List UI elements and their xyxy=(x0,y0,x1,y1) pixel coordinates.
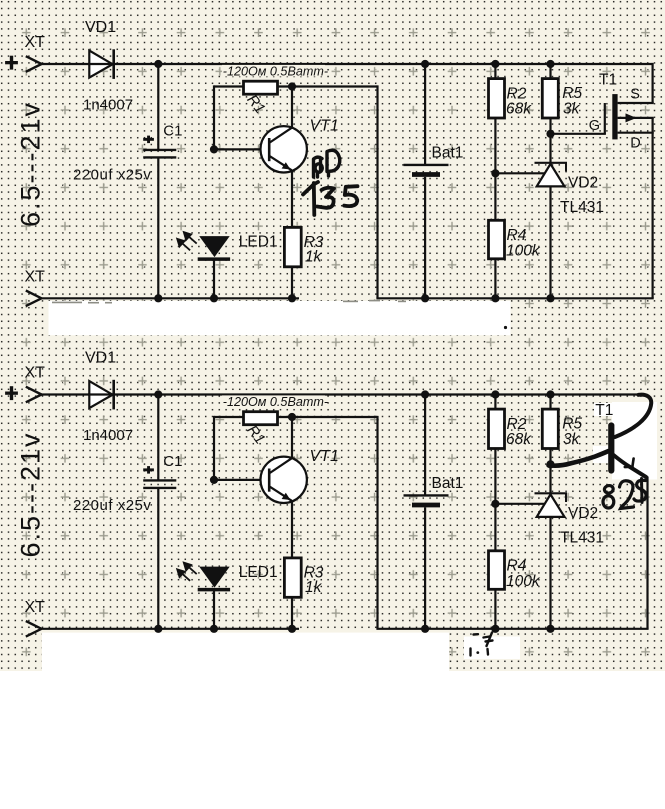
svg-text:XT: XT xyxy=(25,599,46,616)
resistor R2 (top circuit) xyxy=(494,64,496,79)
wire T1 body with arrow (top circuit) xyxy=(618,117,654,119)
connector XT pin chevron (bot circuit, - input) xyxy=(26,621,42,629)
svg-text:LED1: LED1 xyxy=(239,564,278,581)
svg-text:R5: R5 xyxy=(562,416,582,433)
wire R2 to R4 (top circuit) xyxy=(494,118,496,221)
svg-text:VD2: VD2 xyxy=(568,505,598,522)
hand-drawn T1 emitter arrowhead (bottom circuit) xyxy=(625,459,634,468)
svg-text:68k: 68k xyxy=(506,431,532,448)
svg-text:6.5---21v: 6.5---21v xyxy=(16,431,46,557)
tiny ink dot on white strip xyxy=(504,326,507,329)
wire base of VT1 (top circuit) xyxy=(214,148,269,150)
handwritten 135 mark near VT1 (top circuit) xyxy=(303,182,358,215)
label bg for 120Om 0.5Watt (bot circuit) xyxy=(222,395,325,407)
wire R4 bottom lead (top circuit) xyxy=(494,259,496,299)
svg-text:-120Ом 0.5Ватт-: -120Ом 0.5Ватт- xyxy=(223,65,328,79)
battery Bat1 (top circuit) xyxy=(424,64,426,165)
svg-text:R4: R4 xyxy=(507,558,527,575)
hand-drawn T1 emitter stroke (bottom circuit) xyxy=(614,455,647,477)
connector XT pin chevron (top circuit, - input) xyxy=(26,291,42,299)
svg-text:LED1: LED1 xyxy=(239,234,278,251)
hand-drawn T1 bar (bottom circuit) xyxy=(608,426,614,471)
wire R3 bottom lead (bot circuit) xyxy=(291,597,293,629)
svg-text:VD1: VD1 xyxy=(85,350,116,367)
connector XT pin chevron (top circuit, + input) xyxy=(26,56,42,64)
wire right vertical lower segment (top circuit) xyxy=(651,118,653,298)
diode VD1 (bot circuit) xyxy=(89,381,112,408)
wire R2 to R4 (bot circuit) xyxy=(494,449,496,552)
wire right vertical lower segment (bottom circuit) xyxy=(646,477,648,629)
svg-text:R5: R5 xyxy=(562,85,582,102)
svg-text:100k: 100k xyxy=(506,243,541,260)
label bg for 120Om 0.5Watt (top circuit) xyxy=(222,65,325,77)
junction dots bottom rail (top circuit) xyxy=(154,294,162,302)
LED1 light emission arrows (top circuit) xyxy=(177,232,197,250)
svg-text:-120Ом 0.5Ватт-: -120Ом 0.5Ватт- xyxy=(223,395,328,409)
hand-drawn T1 collector curve (bottom circuit) xyxy=(615,395,651,437)
MOSFET T1 channel bar (top circuit) xyxy=(612,94,617,139)
junction dots bottom rail (bot circuit) xyxy=(154,625,162,633)
svg-text:220uf x25v: 220uf x25v xyxy=(73,497,151,514)
small scribble marks bottom area xyxy=(471,633,493,656)
transistor VT1 (bot circuit) xyxy=(261,457,307,503)
svg-text:6.5---21v: 6.5---21v xyxy=(16,101,46,227)
svg-text:C1: C1 xyxy=(163,453,182,470)
junction dots top rail (bot circuit) xyxy=(154,390,162,398)
svg-text:XT: XT xyxy=(25,365,46,382)
svg-text:VD2: VD2 xyxy=(568,175,598,192)
svg-text:C1: C1 xyxy=(163,123,182,140)
svg-text:T1: T1 xyxy=(595,402,613,419)
svg-text:T1: T1 xyxy=(599,72,617,89)
svg-text:Bat1: Bat1 xyxy=(432,475,464,492)
wire emitter of VT1 to R3 (bot circuit) xyxy=(291,501,293,558)
svg-text:VD1: VD1 xyxy=(85,19,116,36)
wire bottom rail right (top circuit) xyxy=(376,297,653,299)
wire emitter of VT1 to R3 (top circuit) xyxy=(291,170,293,227)
transistor VT1 (top circuit) xyxy=(261,126,307,172)
handwritten PD mark near VT1 (top circuit) xyxy=(314,150,340,177)
battery Bat1 (bot circuit) xyxy=(424,395,426,496)
svg-text:Bat1: Bat1 xyxy=(432,145,464,162)
svg-text:1n4007: 1n4007 xyxy=(83,427,133,444)
svg-text:D: D xyxy=(630,135,640,151)
resistor R3 (bot circuit) xyxy=(284,558,301,597)
LED LED1 (top circuit) xyxy=(199,236,230,257)
resistor R4 (bot circuit) xyxy=(489,551,505,590)
wire top rail (bot circuit) xyxy=(41,393,643,395)
capacitor C1 (bot circuit) xyxy=(157,395,159,481)
svg-text:R4: R4 xyxy=(507,227,527,244)
junction dot divider R2/R4 (bot circuit) xyxy=(491,500,499,508)
white area below bottom circuit left xyxy=(42,633,449,672)
MOSFET T1 gate line (top circuit) xyxy=(604,103,606,134)
shunt regulator VD2 TL431 (bot circuit) xyxy=(537,494,565,517)
wire gate of T1 (top circuit) xyxy=(551,133,606,135)
wire R5 to VD2 (bot circuit) xyxy=(549,449,551,494)
svg-text:TL431: TL431 xyxy=(560,199,604,216)
wire right feed vertical (top circuit) xyxy=(376,85,378,298)
svg-text:1k: 1k xyxy=(305,248,323,265)
svg-text:1n4007: 1n4007 xyxy=(83,96,133,113)
connector XT pin chevron (bot circuit, + input) xyxy=(26,387,42,395)
svg-text:100k: 100k xyxy=(506,573,541,590)
plus polarity sign (top circuit input) xyxy=(5,61,18,64)
white patch behind hand-drawn T1 (bottom circuit) xyxy=(612,402,657,480)
wire drain of T1 (top circuit) xyxy=(618,132,654,134)
svg-text:68k: 68k xyxy=(506,101,532,118)
junction dot gate tap on R5 (top circuit) xyxy=(546,130,554,138)
junction dot divider R2/R4 (top circuit) xyxy=(491,169,499,177)
wire bottom rail left (top circuit) xyxy=(41,297,299,299)
junction dot gate tap on R5 (bot circuit) xyxy=(546,460,554,468)
svg-text:TL431: TL431 xyxy=(560,530,604,547)
handwritten 825 (bottom circuit) xyxy=(603,479,646,509)
wire R1 right lead to feed corner (bot circuit) xyxy=(278,416,378,418)
junction dot R1 right / collector (bot circuit) xyxy=(288,413,296,421)
capacitor C1 (top circuit) xyxy=(157,64,159,150)
svg-text:220uf x25v: 220uf x25v xyxy=(73,167,151,184)
white strip between circuits xyxy=(49,301,511,335)
wire R4 bottom lead (bot circuit) xyxy=(494,589,496,629)
resistor R3 (top circuit) xyxy=(284,227,301,266)
resistor R5 (top circuit) xyxy=(549,64,551,79)
resistor R1 (bot circuit) xyxy=(244,412,278,425)
svg-text:XT: XT xyxy=(25,34,46,51)
junction dot base / C1 branch (top circuit) xyxy=(210,145,218,153)
wire source of T1 (top circuit) xyxy=(618,102,654,104)
diode VD1 (top circuit) xyxy=(89,51,112,78)
wire right feed vertical (bot circuit) xyxy=(376,416,378,629)
wire collector of VT1 (top circuit) xyxy=(291,87,293,129)
shunt regulator VD2 TL431 (top circuit) xyxy=(537,164,565,187)
white patch with scribbles bottom right xyxy=(464,637,520,660)
svg-text:G: G xyxy=(589,118,600,134)
svg-text:3k: 3k xyxy=(563,101,581,118)
junction dot base / C1 branch (bot circuit) xyxy=(210,476,218,484)
LED1 light emission arrows (bot circuit) xyxy=(177,563,197,581)
svg-text:VT1: VT1 xyxy=(310,118,339,135)
wire reference divider to VD2 (bot circuit) xyxy=(495,503,545,505)
wire R3 bottom lead (top circuit) xyxy=(291,267,293,299)
wire R5 to VD2 (top circuit) xyxy=(549,118,551,163)
wire R1 left lead down to LED branch (bot circuit) xyxy=(214,416,244,418)
resistor R4 (top circuit) xyxy=(489,220,505,258)
wire bottom rail left (bot circuit) xyxy=(41,628,299,630)
faint dashes on white strip xyxy=(52,301,406,303)
svg-text:1k: 1k xyxy=(305,579,323,596)
plus mark of C1 (bot circuit) xyxy=(143,468,154,471)
svg-text:3k: 3k xyxy=(563,431,581,448)
resistor R1 (top circuit) xyxy=(244,81,278,94)
wire VD2 cathode down (top circuit) xyxy=(549,186,551,298)
wire base of VT1 (bot circuit) xyxy=(214,479,269,481)
svg-text:S: S xyxy=(630,87,640,103)
wire collector of VT1 (bot circuit) xyxy=(291,417,293,459)
hand-drawn T1 base stroke (bottom circuit) xyxy=(549,451,609,466)
svg-text:XT: XT xyxy=(25,269,46,286)
svg-text:VT1: VT1 xyxy=(310,448,339,465)
resistor R2 (bot circuit) xyxy=(494,395,496,410)
resistor R5 (bot circuit) xyxy=(549,395,551,410)
plus polarity sign (bot circuit input) xyxy=(5,392,18,395)
LED LED1 (bot circuit) xyxy=(199,567,230,588)
junction dot R1 right / collector (top circuit) xyxy=(288,82,296,90)
wire top rail (top circuit) xyxy=(41,63,653,65)
junction dots top rail (top circuit) xyxy=(154,60,162,68)
wire bottom rail right (bot circuit) xyxy=(376,628,648,630)
wire R1 left lead down to LED branch (top circuit) xyxy=(214,85,244,87)
wire right vertical top segment (top circuit) xyxy=(651,63,653,103)
wire VD2 cathode down (bot circuit) xyxy=(549,517,551,629)
wire R1 right lead to feed corner (top circuit) xyxy=(278,85,378,87)
wire reference divider to VD2 (top circuit) xyxy=(495,172,545,174)
plus mark of C1 (top circuit) xyxy=(143,138,154,141)
